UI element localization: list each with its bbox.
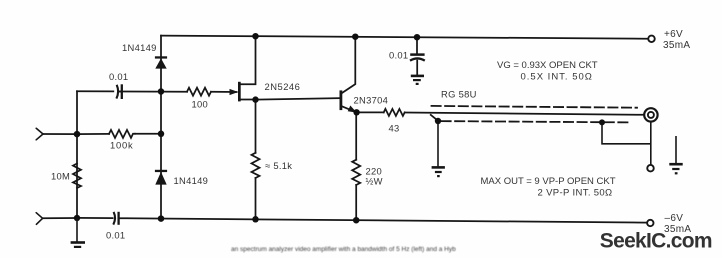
svg-text:100: 100 [192,99,209,110]
svg-text:SeekIC.com: SeekIC.com [600,230,712,253]
svg-text:MAX OUT = 9 VP-P OPEN CKT: MAX OUT = 9 VP-P OPEN CKT [481,176,616,187]
svg-text:2 VP-P INT. 50Ω: 2 VP-P INT. 50Ω [538,187,613,198]
svg-text:RG 58U: RG 58U [441,89,477,100]
svg-text:2N3704: 2N3704 [354,95,389,106]
svg-text:1N4149: 1N4149 [174,175,209,186]
svg-text:10M: 10M [51,171,70,182]
svg-text:–6V: –6V [665,213,684,224]
svg-text:½W: ½W [366,176,383,187]
svg-text:1N4149: 1N4149 [122,42,157,53]
svg-text:0.5X INT. 50Ω: 0.5X INT. 50Ω [521,71,593,82]
svg-text:VG = 0.93X OPEN CKT: VG = 0.93X OPEN CKT [497,60,598,71]
svg-text:+6V: +6V [664,29,683,40]
svg-text:35mA: 35mA [663,40,690,51]
svg-text:0.01: 0.01 [106,230,125,241]
svg-text:0.01: 0.01 [389,50,408,61]
svg-text:≈ 5.1k: ≈ 5.1k [265,160,292,171]
svg-text:an spectrum analyzer video amp: an spectrum analyzer video amplifier wit… [231,246,456,253]
svg-text:0.01: 0.01 [109,71,128,82]
svg-text:2N5246: 2N5246 [265,81,301,92]
svg-text:100k: 100k [110,140,134,151]
svg-text:43: 43 [389,123,400,134]
